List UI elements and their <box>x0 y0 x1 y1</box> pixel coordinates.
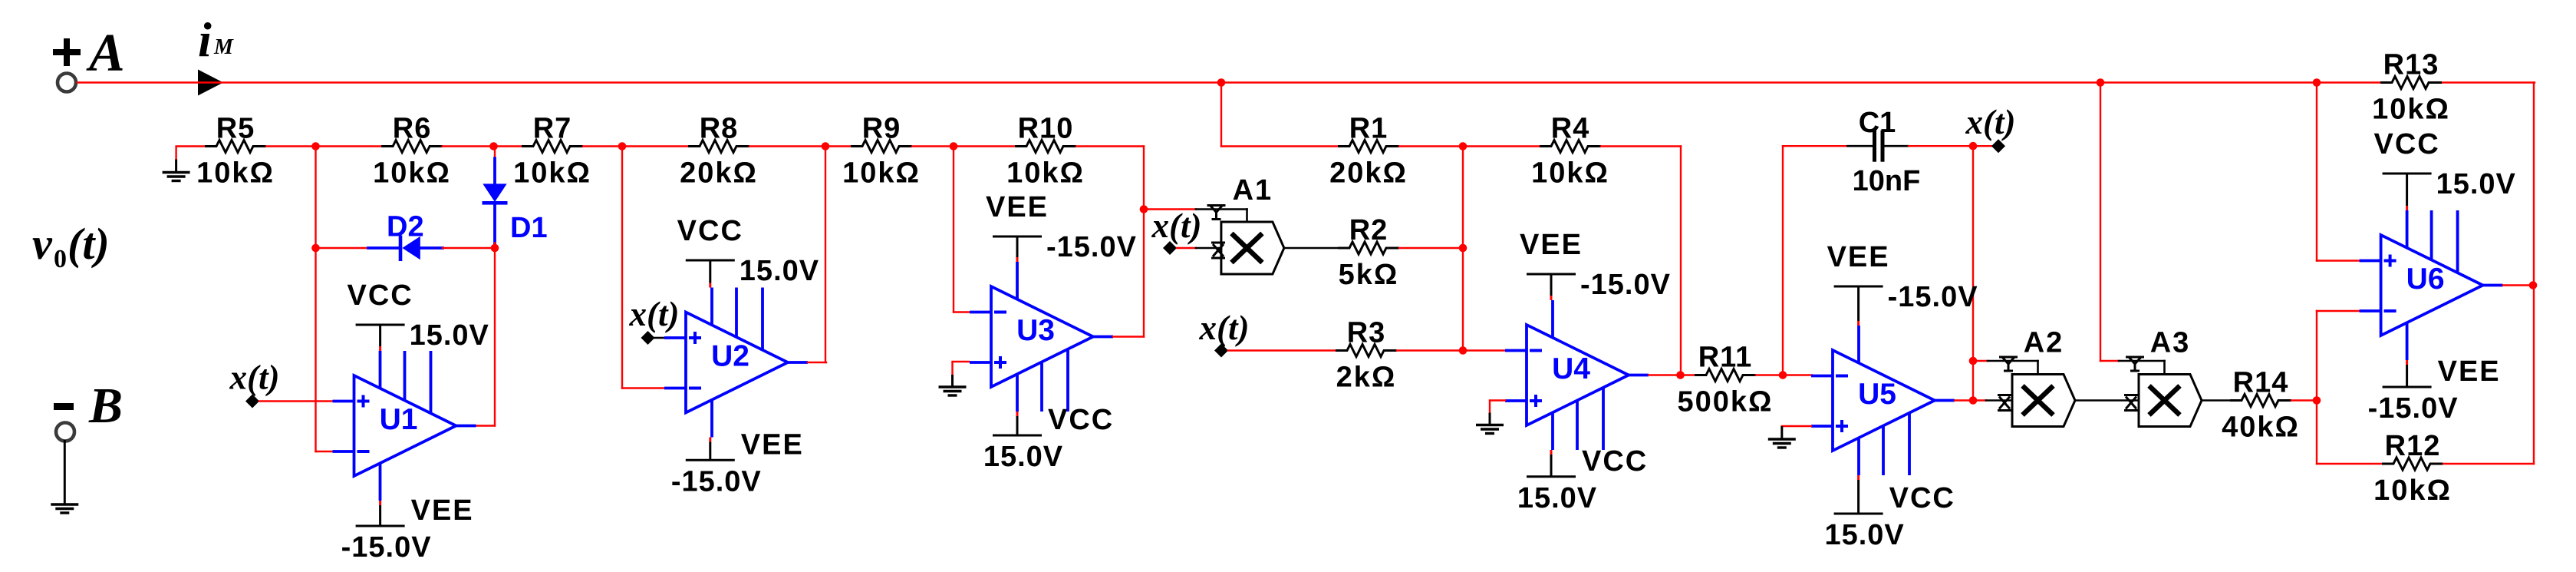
op-amp U5 <box>1811 326 1955 475</box>
wire x(t) to R3 <box>1228 349 1336 351</box>
svg-text:R4: R4 <box>1551 113 1590 145</box>
wire U6 - lead <box>2317 310 2359 312</box>
U1 VEE pin stub <box>379 501 381 505</box>
svg-text:10kΩ: 10kΩ <box>196 157 275 190</box>
svg-text:R5: R5 <box>216 113 255 145</box>
node x(t) at C1 output <box>1991 139 2005 153</box>
diode D1 <box>483 147 508 249</box>
U2 VEE pin stub <box>709 438 711 442</box>
lead A1 Y down <box>1246 210 1248 223</box>
svg-text:15.0V: 15.0V <box>2436 168 2516 200</box>
wire corner to R12 <box>2317 463 2382 465</box>
lead A1 X <box>1196 247 1221 250</box>
op-amp U2 <box>664 288 808 438</box>
svg-text:-15.0V: -15.0V <box>671 465 762 498</box>
svg-text:x(t): x(t) <box>229 359 280 397</box>
wire U1 output <box>476 425 495 426</box>
svg-text:VCC: VCC <box>347 279 413 312</box>
resistor R3 2k <box>1336 317 1397 394</box>
lead A3 Y down <box>2163 361 2166 375</box>
lead A1 Y <box>1196 208 1247 210</box>
resistor R6 10k <box>373 113 451 190</box>
VCC supply U6 <box>2373 128 2515 200</box>
wire R8 to R9 <box>749 145 851 147</box>
junction R3 right <box>1459 346 1468 355</box>
wire ground to U4 + lead <box>1490 399 1505 401</box>
svg-text:500kΩ: 500kΩ <box>1677 386 1773 418</box>
multiplier A3 <box>2139 327 2202 427</box>
svg-text:B: B <box>88 378 123 434</box>
junction A1 Y tap <box>1140 205 1148 213</box>
svg-text:U2: U2 <box>711 340 749 373</box>
wire top net down to A3 Y <box>2100 83 2101 362</box>
wire corner to R1 <box>1221 145 1338 147</box>
wire ground to U3 + lead <box>953 361 970 362</box>
node x(t) at A1 X <box>1163 241 1177 255</box>
resistor R10 10k <box>1006 113 1085 190</box>
svg-text:R2: R2 <box>1349 214 1388 246</box>
wire R7 to R8 <box>583 145 688 147</box>
wire x(t) to A2 Y <box>1973 360 1988 362</box>
VCC supply U5 <box>1824 482 1955 551</box>
resistor R5 10k <box>196 113 275 190</box>
resistor R8 20k <box>680 113 758 190</box>
ground at U4 + <box>1476 401 1504 434</box>
svg-text:R9: R9 <box>862 113 901 145</box>
wire top net down to U6 + lead <box>2316 83 2317 261</box>
wire terminal B to ground <box>64 441 66 504</box>
junction U5 out <box>1969 396 1978 405</box>
svg-text:-15.0V: -15.0V <box>341 531 432 564</box>
svg-text:VEE: VEE <box>1827 241 1890 273</box>
svg-text:-15.0V: -15.0V <box>1888 281 1978 313</box>
wire R9 to R10 <box>912 145 1015 147</box>
svg-text:VCC: VCC <box>1582 445 1648 478</box>
wire U5 output to A2 X <box>1955 399 1986 401</box>
VEE supply U6 <box>2368 355 2501 425</box>
wire ground to R5 <box>176 147 205 160</box>
U4 VEE pin stub <box>1550 296 1553 300</box>
junction U4 out <box>1676 371 1685 379</box>
current direction arrow <box>198 70 223 96</box>
svg-text:A: A <box>86 24 125 83</box>
svg-text:VEE: VEE <box>741 428 804 461</box>
wire ground to U5 + lead <box>1782 425 1811 427</box>
wire node to U4 - lead <box>1463 349 1505 351</box>
capacitor C1 <box>1783 107 1973 197</box>
svg-text:-15.0V: -15.0V <box>1580 269 1671 301</box>
svg-text:10kΩ: 10kΩ <box>842 157 921 190</box>
U3 VEE pin stub <box>1016 257 1019 262</box>
wire U6 - down through R14 node to R12 <box>2316 311 2317 464</box>
junction R7-R8 <box>618 142 627 150</box>
pin X A2 <box>1998 395 2011 411</box>
svg-text:i: i <box>198 12 212 67</box>
svg-text:10kΩ: 10kΩ <box>1006 157 1085 190</box>
lead A3 output to R14 <box>2202 399 2230 402</box>
U3 VCC pin stub <box>1016 412 1019 416</box>
VCC supply U1 <box>347 279 489 352</box>
svg-text:10nF: 10nF <box>1853 165 1921 197</box>
pin Y A3 <box>2126 357 2144 371</box>
terminal B <box>54 378 123 441</box>
wire U6 output <box>2503 284 2534 286</box>
lead A1 output to R2 <box>1285 247 1338 250</box>
junction R5-R6 <box>311 142 320 150</box>
U6 VEE pin stub <box>2406 360 2408 365</box>
U5 VEE pin stub <box>1857 321 1860 326</box>
wire node R9R10 down to U3 inverting input <box>953 147 954 312</box>
svg-text:R8: R8 <box>700 113 739 145</box>
svg-text:20kΩ: 20kΩ <box>1329 157 1408 190</box>
svg-text:A3: A3 <box>2150 327 2191 359</box>
junction R9-R10 <box>950 142 958 150</box>
svg-text:R11: R11 <box>1698 342 1753 374</box>
terminal A <box>53 24 125 92</box>
svg-text:M: M <box>213 35 234 59</box>
multiplier A2 <box>2012 327 2075 427</box>
wire top net down to R1 <box>1220 83 1222 147</box>
wire R5 to R6 <box>266 145 382 147</box>
resistor R9 10k <box>842 113 921 190</box>
VEE supply U3 <box>986 191 1137 263</box>
lead A2 Y down <box>2037 361 2039 375</box>
svg-text:R1: R1 <box>1349 113 1388 145</box>
VEE supply U1 <box>341 494 474 564</box>
wire D-net down to U1 output <box>494 248 496 426</box>
node x(t) at U1 + <box>245 395 259 408</box>
op-amp U6 <box>2360 210 2503 360</box>
junction U6 out <box>2529 281 2538 289</box>
wire x(t) to U1 + lead <box>259 400 333 402</box>
svg-text:VEE: VEE <box>2438 355 2501 388</box>
pin Y A2 <box>1999 357 2018 371</box>
wire to U2 - lead <box>622 387 664 388</box>
svg-text:20kΩ: 20kΩ <box>680 157 758 190</box>
svg-text:VCC: VCC <box>1048 404 1114 436</box>
svg-text:x(t): x(t) <box>629 295 680 333</box>
U4 VCC pin stub <box>1550 450 1553 455</box>
op-amp U4 <box>1505 300 1649 450</box>
wire R2 to node <box>1399 247 1463 249</box>
svg-text:D1: D1 <box>510 212 548 244</box>
svg-text:10kΩ: 10kΩ <box>2372 94 2450 126</box>
svg-text:VEE: VEE <box>986 191 1049 223</box>
op-amp U3 <box>970 262 1113 412</box>
VEE supply U4 <box>1520 229 1671 301</box>
svg-text:VCC: VCC <box>2373 128 2439 160</box>
ground at U3 + <box>939 362 967 395</box>
svg-text:R12: R12 <box>2385 430 2441 462</box>
wire R14 to node <box>2291 399 2317 401</box>
svg-text:10kΩ: 10kΩ <box>1531 157 1609 190</box>
junction R14 right <box>2313 396 2321 405</box>
lead A3 Y <box>2119 360 2165 362</box>
wire to A1 Y input <box>1144 208 1196 210</box>
svg-text:15.0V: 15.0V <box>410 319 489 352</box>
wire to U3 - lead <box>954 311 969 312</box>
U1 VCC pin stub <box>379 346 381 351</box>
svg-text:R10: R10 <box>1018 113 1074 145</box>
svg-text:U4: U4 <box>1552 352 1590 385</box>
wire U2 output <box>808 362 826 363</box>
resistor R4 10k <box>1531 113 1609 190</box>
VEE supply U2 <box>671 428 804 498</box>
U2 VCC pin stub <box>709 283 711 288</box>
lead A2 X <box>1986 399 2012 402</box>
label v0(t) <box>32 219 110 273</box>
ground at R5 <box>163 160 190 181</box>
svg-text:15.0V: 15.0V <box>740 255 819 287</box>
svg-text:2kΩ: 2kΩ <box>1336 362 1397 394</box>
svg-text:15.0V: 15.0V <box>1517 482 1597 514</box>
junction top-A3Y <box>2097 78 2105 87</box>
pin X A1 <box>1211 243 1225 258</box>
wire R6 to R7 <box>443 145 522 147</box>
svg-text:x(t): x(t) <box>1151 207 1202 245</box>
svg-text:R6: R6 <box>393 113 432 145</box>
VCC supply U2 <box>677 215 819 287</box>
label i_M current <box>198 12 234 67</box>
op-amp U1 <box>333 351 476 501</box>
wire x(t) to A1 X <box>1177 247 1196 249</box>
svg-text:R13: R13 <box>2383 49 2439 81</box>
svg-text:D2: D2 <box>387 211 424 243</box>
wire R10 to corner <box>1076 145 1144 147</box>
junction A2 Y tap <box>1969 357 1978 365</box>
svg-text:10kΩ: 10kΩ <box>513 157 591 190</box>
resistor R14 40k <box>2222 367 2300 444</box>
wire U3 output <box>1113 336 1144 337</box>
svg-text:R3: R3 <box>1347 317 1386 349</box>
svg-text:x(t): x(t) <box>1965 103 2016 141</box>
junction D2 left <box>311 244 320 253</box>
resistor R11 500k <box>1677 342 1773 418</box>
pin X A3 <box>2124 395 2138 411</box>
wire to U6 + <box>2317 260 2359 261</box>
pin Y A1 <box>1207 206 1226 220</box>
resistor R2 5k <box>1338 214 1399 291</box>
wire x(t) node down to U5 output <box>1972 146 1974 401</box>
U5 VCC pin stub <box>1857 475 1860 480</box>
svg-text:A2: A2 <box>2024 327 2064 359</box>
wire R12 to corner <box>2443 463 2534 465</box>
U6 VCC pin stub <box>2406 206 2408 210</box>
stub x(t) to U2 + lead <box>654 337 664 339</box>
wire node R7R8 down to U2 inverting input <box>621 147 623 388</box>
wire A2 output to A3 X <box>2075 399 2139 402</box>
svg-text:10kΩ: 10kΩ <box>373 157 451 190</box>
svg-text:A1: A1 <box>1233 174 1273 207</box>
resistor R12 10k <box>2373 430 2452 507</box>
wire right vertical R12/R13 to U6 output <box>2533 83 2535 465</box>
svg-text:0: 0 <box>54 245 67 273</box>
wire U2 output up to node R8R9 <box>825 147 826 363</box>
junction C1 left <box>1779 371 1787 379</box>
junction R8-R9 <box>822 142 830 150</box>
svg-text:-15.0V: -15.0V <box>2368 392 2459 425</box>
junction top-U6 <box>2313 78 2321 87</box>
diode D2 <box>316 236 496 262</box>
wire U4 output to R11 <box>1649 374 1695 375</box>
resistor R1 20k <box>1329 113 1408 190</box>
svg-text:(t): (t) <box>68 219 110 269</box>
svg-text:10kΩ: 10kΩ <box>2373 474 2452 507</box>
VCC supply U4 <box>1517 445 1648 514</box>
svg-text:U1: U1 <box>380 403 418 436</box>
VCC supply U3 <box>983 404 1114 473</box>
wire up to C1 left <box>1782 146 1784 375</box>
ground at U5 + <box>1768 426 1796 448</box>
resistor R13 10k <box>2372 49 2450 126</box>
svg-text:R14: R14 <box>2233 367 2289 399</box>
wire R4 down to U4 output <box>1680 147 1682 376</box>
wire R3 to node <box>1397 349 1463 351</box>
ground terminal B <box>51 504 78 513</box>
svg-text:40kΩ: 40kΩ <box>2222 412 2300 444</box>
svg-text:R7: R7 <box>533 113 572 145</box>
svg-text:5kΩ: 5kΩ <box>1339 259 1399 291</box>
svg-text:v: v <box>32 219 53 269</box>
wire top net A to R13 <box>77 81 2380 83</box>
wire U3 output up to R10 right <box>1143 147 1145 337</box>
wire C1 to x(t) node <box>1973 145 1991 147</box>
svg-text:VEE: VEE <box>411 494 474 527</box>
node x(t) at R3 <box>1214 344 1228 358</box>
wire node R1R4 down to R3 node <box>1462 147 1464 351</box>
wire node R5R6 down to U1 inverting input <box>315 147 316 452</box>
svg-text:VCC: VCC <box>677 215 743 247</box>
wire to U1 - lead <box>316 451 333 452</box>
VEE supply U5 <box>1827 241 1978 313</box>
wire R13 to right corner <box>2442 81 2535 83</box>
junction R2 right <box>1459 244 1468 253</box>
wire R4 to corner <box>1601 145 1681 147</box>
svg-text:C1: C1 <box>1859 107 1896 139</box>
junction C1 right <box>1969 142 1978 150</box>
svg-text:VEE: VEE <box>1520 229 1583 261</box>
svg-text:U6: U6 <box>2406 263 2445 296</box>
multiplier A1 <box>1221 174 1284 274</box>
svg-text:U5: U5 <box>1858 378 1896 411</box>
junction top-R1 <box>1217 78 1226 87</box>
svg-text:-15.0V: -15.0V <box>1046 231 1137 263</box>
svg-text:VCC: VCC <box>1889 482 1955 514</box>
svg-text:U3: U3 <box>1016 314 1055 347</box>
wire to A3 Y lead <box>2100 360 2119 362</box>
svg-text:15.0V: 15.0V <box>1824 519 1904 551</box>
lead A2 Y <box>1988 360 2038 362</box>
node x(t) at U2 + <box>641 331 655 345</box>
wire R11 to U5 - lead <box>1756 374 1812 375</box>
junction R1-R4 <box>1459 142 1468 150</box>
svg-text:15.0V: 15.0V <box>983 441 1063 473</box>
wire R1 to R4 <box>1399 145 1540 147</box>
resistor R7 10k <box>513 113 591 190</box>
svg-text:x(t): x(t) <box>1199 309 1250 347</box>
junction R6-R7 <box>489 142 498 150</box>
junction D1-D2 <box>491 244 499 253</box>
